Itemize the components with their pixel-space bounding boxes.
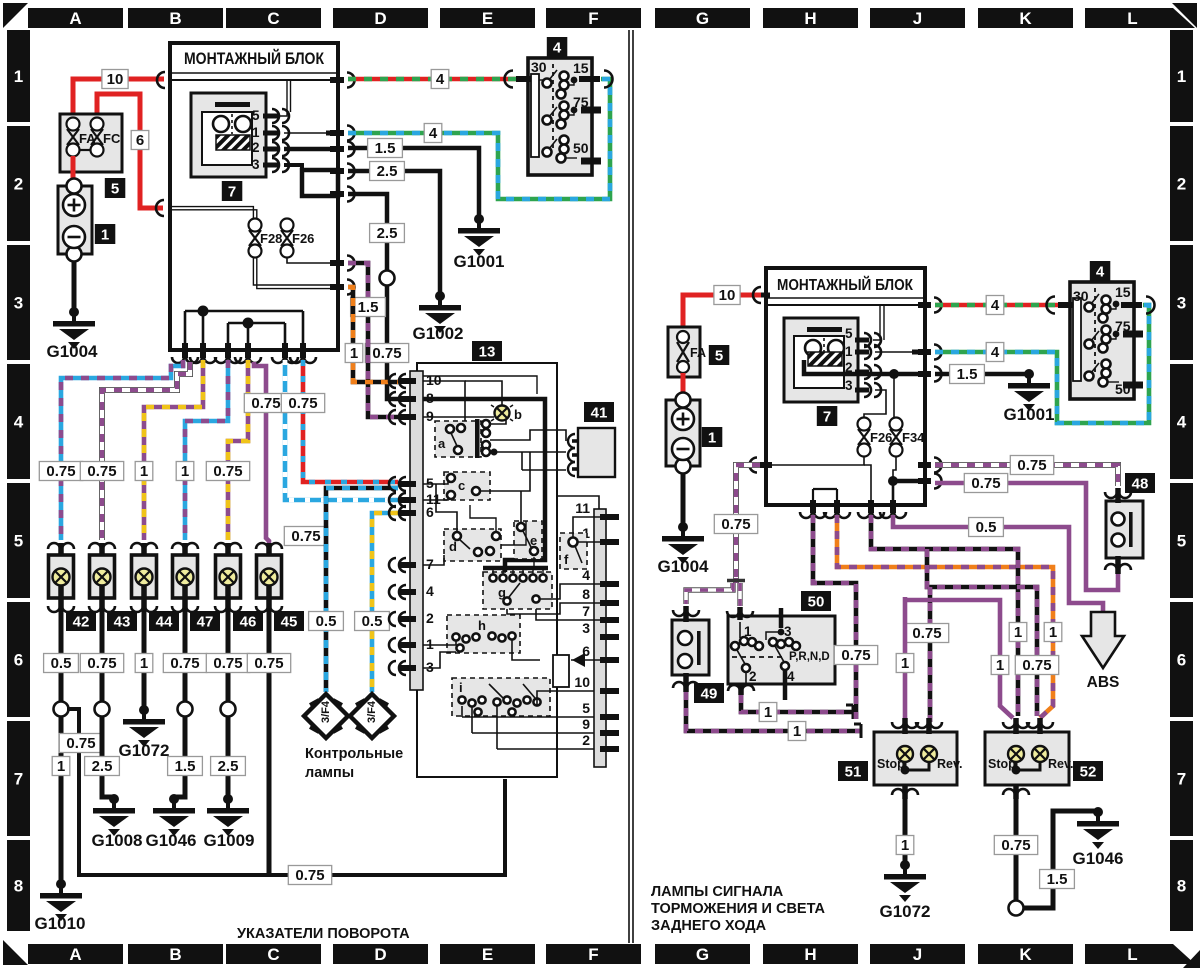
label 0.75 cyanwhite [284,527,327,546]
montage2 bus [767,304,925,306]
svg-text:0.75: 0.75 [213,655,242,672]
label 1.5 g1046 [168,757,203,776]
svg-text:4: 4 [14,413,24,432]
svg-text:0.75: 0.75 [288,395,317,412]
switch49 bottom stub [673,673,699,692]
switch 13 right pins [574,500,619,749]
svg-text:0.75: 0.75 [254,655,283,672]
svg-text:5: 5 [1177,532,1186,551]
label 4 [431,70,449,89]
lamp51 bottom wire to G1072 [892,785,918,865]
svg-text:30: 30 [531,59,547,75]
svg-text:G1008: G1008 [91,831,142,850]
svg-text:L: L [1127,9,1137,28]
svg-text:9: 9 [426,408,434,424]
svg-text:0.5: 0.5 [51,655,72,672]
svg-text:43: 43 [114,614,131,631]
fuse block 5 (FA FC) [60,114,122,172]
relay pin3 wire to link [284,165,302,170]
wire stop feed purple [905,597,1013,722]
fuse holder 5 right (FA) [668,327,706,377]
svg-text:F: F [588,945,598,964]
turn lamp 45 [256,543,282,612]
svg-text:1.5: 1.5 [1047,871,1068,888]
svg-text:7: 7 [582,603,590,619]
svg-text:2.5: 2.5 [377,163,398,180]
svg-text:D: D [374,945,386,964]
svg-text:0.75: 0.75 [170,655,199,672]
svg-text:УКАЗАТЕЛИ ПОВОРОТА: УКАЗАТЕЛИ ПОВОРОТА [237,926,410,942]
wire fuse FA to battery red [71,156,76,186]
label 1o [345,344,363,363]
svg-text:6: 6 [136,132,144,149]
svg-text:МОНТАЖНЫЙ БЛОК: МОНТАЖНЫЙ БЛОК [184,49,325,68]
label 4 switch [547,37,568,57]
label 1 g1072r [896,836,914,855]
label 4 right [986,296,1004,315]
switch pin30 stub [505,71,532,88]
wire pw to selector pin1 [737,583,742,606]
svg-text:ЗАДНЕГО ХОДА: ЗАДНЕГО ХОДА [651,918,767,934]
label 1 right [702,427,723,447]
label 4 switch right [1090,261,1111,281]
svg-text:f: f [564,552,569,567]
turn lamp 47 [172,543,198,612]
svg-text:7: 7 [228,184,236,201]
fuse F26 [281,219,315,258]
wire yellow/cyan to test lamp 2 [372,513,398,692]
rear lamp unit 52 [985,732,1073,785]
ground G1004 [46,307,98,361]
svg-text:10: 10 [574,674,590,690]
label 49 [694,683,724,703]
lamp b indicator [491,405,522,422]
label 1 bp2 [1009,623,1027,642]
svg-text:11: 11 [575,500,590,516]
svg-text:1: 1 [426,636,434,652]
lamp 43 output wire [95,610,115,797]
svg-text:1: 1 [57,758,65,775]
svg-text:E: E [482,9,493,28]
title brake lamps [651,884,826,934]
svg-text:50: 50 [573,140,589,156]
connector diamond 3/F4 right [350,694,394,738]
svg-text:4: 4 [426,583,434,599]
wire 2.5 to G1002 [348,171,440,296]
svg-text:47: 47 [197,614,214,631]
montage bottom pins [172,343,316,363]
label 50 [801,591,831,611]
wire 6 red from fuse FC [97,94,163,208]
wire purple 0.75 to 48 loop [935,483,1112,590]
label 1 op [1044,623,1062,642]
montage block (left) [170,43,338,350]
svg-text:42: 42 [73,614,90,631]
svg-text:ЛАМПЫ СИГНАЛА: ЛАМПЫ СИГНАЛА [651,884,784,900]
montage bottom bus A [185,306,303,349]
ground G1001 right [1003,369,1054,424]
svg-text:0.75: 0.75 [66,735,95,752]
module 41 connector arcs [568,434,579,476]
relay pin2 wire 1.5 exit [284,147,340,152]
svg-text:G1001: G1001 [1003,405,1054,424]
svg-text:5: 5 [582,700,590,716]
label 1 join50 [759,703,777,722]
svg-text:FC: FC [103,131,121,146]
reverse light switch 48 [1106,501,1143,558]
svg-text:7: 7 [823,409,831,426]
inline connector circle [380,271,395,286]
label 42 [66,611,96,631]
svg-text:1: 1 [845,344,853,359]
selector pin2 stub [728,684,754,695]
svg-text:2: 2 [582,732,590,748]
svg-text:0.75: 0.75 [213,463,242,480]
montage bottom bus B [228,318,285,349]
montage block internal bus [172,80,338,116]
wire F26 bottom to left exit [770,456,871,502]
wire cyan/purple to lamp 42 [61,360,183,540]
svg-text:G1072: G1072 [879,902,930,921]
switch 13 right connector strip [594,509,606,767]
svg-text:3/F4: 3/F4 [366,700,378,723]
svg-text:1: 1 [350,345,358,362]
svg-text:6: 6 [426,504,434,520]
svg-text:Контрольные: Контрольные [305,746,403,762]
lamp 45 output wire [267,610,272,875]
svg-text:2: 2 [14,175,23,194]
label 1.5b [351,298,386,317]
wire F26 to exit263 [287,258,330,263]
svg-text:48: 48 [1132,476,1149,493]
svg-text:1: 1 [140,655,148,672]
svg-text:G1046: G1046 [145,831,196,850]
wire purple/yellow to lamp 46 [228,360,248,540]
label 2.5 [370,162,405,181]
label 0.5 dia1 [309,612,344,631]
svg-text:0.75: 0.75 [1017,457,1046,474]
switch pin15 stub [579,71,613,88]
svg-text:1: 1 [1049,624,1057,641]
svg-text:0.75: 0.75 [46,463,75,480]
svg-text:2: 2 [252,140,260,155]
montage block right [766,268,925,505]
switch2 pin50 stub [1123,382,1143,389]
label 2.5 g1009 [211,757,246,776]
svg-text:1: 1 [793,723,801,740]
label 0.5 [969,518,1004,537]
wire 2.5/0.75 to pin8 [348,194,398,399]
label 2.5b [370,224,405,243]
clutch switch 49 [672,620,709,675]
svg-text:4: 4 [787,669,795,684]
svg-text:G1002: G1002 [412,324,463,343]
label 1 stop2 [991,656,1009,675]
internal link plate [302,170,338,196]
switch49 top stub [673,606,699,622]
svg-text:15: 15 [573,60,589,76]
label 0.75 rev2 [1015,656,1058,675]
svg-text:A: A [69,945,81,964]
svg-text:B: B [169,945,181,964]
text control lamps [305,746,403,781]
svg-text:b: b [514,407,522,422]
wire orange/black to pin10 [348,287,398,382]
wire 48 bottom purple [1112,574,1118,590]
svg-text:41: 41 [591,405,608,422]
svg-text:49: 49 [701,686,718,703]
svg-text:0.75: 0.75 [721,516,750,533]
svg-text:h: h [478,618,486,633]
relay2 pin5 riser [873,306,884,340]
wire cyan/purple to lamp 47 [185,360,228,540]
svg-text:G1010: G1010 [34,914,85,933]
svg-text:6: 6 [14,651,23,670]
ignition switch 4 [528,58,592,175]
label 0.75 pin8 [365,344,408,363]
svg-text:2: 2 [1177,175,1186,194]
label 10 [102,70,128,89]
svg-text:4: 4 [436,71,445,88]
svg-text:5: 5 [14,532,23,551]
turn lamp 42 [48,543,74,612]
relay2 pin3 wire [864,390,886,418]
svg-text:3: 3 [14,294,23,313]
svg-text:1.5: 1.5 [358,299,379,316]
svg-text:0.5: 0.5 [316,613,337,630]
montage2 right exit stubs [918,298,942,489]
label 0.5 dia2 [355,612,390,631]
label 44 [149,611,179,631]
wire black/cyan to test lamp 1 [326,488,398,692]
multifunction switch 13 box [417,363,557,777]
svg-text:9: 9 [582,716,590,732]
lamp 47 output wire [174,610,193,797]
svg-text:4: 4 [991,344,1000,361]
wire purple/white to selector [736,465,760,578]
label 0.75 redcyan [281,394,324,413]
wire F28 to exit287 double [253,257,330,289]
label 0.75 branch [59,734,102,753]
label 51 [838,761,868,781]
svg-text:0.75: 0.75 [372,345,401,362]
wire white/purple to lamp 43 [102,362,190,540]
svg-text:Rev.: Rev. [937,757,962,771]
label 4b right [986,343,1004,362]
svg-text:0.75: 0.75 [251,395,280,412]
svg-text:J: J [913,945,922,964]
switch2 pin30 stub [1047,297,1074,314]
svg-text:C: C [267,945,279,964]
switch48 bottom stub [1105,556,1131,574]
svg-text:FA: FA [690,346,706,360]
label 43 [107,611,137,631]
wire black/purple to pin9 [348,263,398,417]
label 1 join49 [788,722,806,741]
svg-text:L: L [1127,945,1137,964]
svg-text:G1001: G1001 [453,252,504,271]
switch48 top stub [1105,488,1131,503]
wire 50 pin2 to join [741,695,853,719]
svg-text:C: C [267,9,279,28]
wire battery negative to ground [72,261,77,312]
wire purple/white to reverse switch 48 [935,465,1118,486]
svg-text:0.75: 0.75 [87,655,116,672]
switch pin75 stub [581,107,601,114]
ground G1072 right [879,860,930,921]
label 4b [424,124,442,143]
svg-text:8: 8 [582,586,590,602]
svg-text:52: 52 [1080,764,1097,781]
svg-text:G: G [696,9,709,28]
connector diamond 3/F4 left [304,694,348,738]
svg-text:4: 4 [991,297,1000,314]
label 10 right [714,286,740,305]
svg-text:30: 30 [1073,288,1089,304]
svg-text:0.75: 0.75 [1001,837,1030,854]
svg-text:8: 8 [1177,877,1186,896]
svg-text:1: 1 [14,67,23,86]
svg-text:50: 50 [808,594,825,611]
svg-text:3: 3 [845,378,853,393]
label 0.75 p [964,474,1007,493]
svg-text:G1072: G1072 [118,741,169,760]
wire 4 red/green to ignition switch [348,77,518,82]
wire 4 green/cyan loop [348,79,610,199]
svg-text:0.75: 0.75 [912,625,941,642]
svg-text:0.75: 0.75 [295,867,324,884]
svg-text:4: 4 [1177,413,1187,432]
label 48 [1125,473,1155,493]
lamp51 top stubs [892,718,942,734]
svg-text:G1004: G1004 [657,557,709,576]
label 1 [95,224,116,244]
svg-text:G: G [696,945,709,964]
svg-text:7: 7 [426,556,434,572]
svg-text:3: 3 [784,624,792,639]
relay pin1 wire to exit [284,132,340,134]
svg-text:0.75: 0.75 [971,475,1000,492]
label 0.75 bp [834,646,877,665]
svg-text:1: 1 [708,430,716,447]
relay 7 pin stubs [263,109,289,172]
svg-text:1: 1 [252,125,260,140]
svg-text:G1046: G1046 [1072,849,1123,868]
label 0.75 rev1 [905,624,948,643]
wire 10 red right [683,295,761,330]
fuse F28 [249,219,283,258]
label 0.75 lamp52 [994,836,1037,855]
wire 1.5 to G1001 [348,148,479,219]
svg-text:5: 5 [111,181,119,198]
svg-text:1: 1 [140,463,148,480]
purple/white T split [727,578,745,583]
fuse F26 right [858,418,893,457]
ground G1008 [91,794,142,850]
montage2 bottom U link [813,489,837,502]
rear lamp unit 51 [874,732,962,785]
svg-text:H: H [804,945,816,964]
svg-text:D: D [374,9,386,28]
ground G1010 [34,879,85,933]
montage right exit stubs [330,73,355,295]
svg-text:5: 5 [715,348,723,365]
relay 7 [191,93,266,177]
relay right pin stubs [855,333,881,397]
svg-text:1: 1 [101,227,109,244]
label 7 [222,181,243,201]
wire 1.5 right to G1001 [935,372,1029,377]
svg-text:2.5: 2.5 [92,758,113,775]
svg-text:0.75: 0.75 [1022,657,1051,674]
ABS arrow [1082,612,1124,691]
montage2 bottom pins [800,500,906,518]
svg-text:3: 3 [1177,294,1186,313]
label 0.75 pw [1010,456,1053,475]
label 7 right [817,406,838,426]
wire pw to switch 49 [686,583,733,604]
label 45 [274,611,304,631]
svg-text:Rev.: Rev. [1048,757,1073,771]
label 47 [190,611,220,631]
svg-text:K: K [1019,9,1032,28]
wire purple to lamp 45 [254,362,269,543]
wire 4 green/cyan loop right [935,305,1149,423]
label 1.5 [368,139,403,158]
selector pin1 stub [727,607,753,620]
svg-text:44: 44 [156,614,173,631]
wire battery to ground right [681,473,686,527]
turn lamp 46 [215,543,241,612]
lamp 46 output wire [221,610,236,799]
label 2.5 g1008 [85,757,120,776]
svg-text:0.75: 0.75 [841,647,870,664]
svg-text:B: B [169,9,181,28]
svg-text:51: 51 [845,764,862,781]
label 0.75 bottom [288,866,331,885]
svg-text:лампы: лампы [305,765,354,781]
switch2 pin75 stub [1123,331,1143,338]
segment divider between circuits [629,30,633,943]
svg-text:3: 3 [426,659,434,675]
svg-text:2.5: 2.5 [218,758,239,775]
svg-text:6: 6 [1177,651,1186,670]
svg-text:J: J [913,9,922,28]
label 5 right [709,345,730,365]
svg-text:1: 1 [1177,67,1186,86]
label 46 [233,611,263,631]
ground G1009 [203,794,254,850]
wire montage2 pin837 orange/purple [837,515,1053,718]
wire 49 to join 1 [686,692,861,738]
label 1.5 right [950,365,985,384]
svg-text:1: 1 [901,655,909,672]
battery 1 [58,179,92,262]
wire red/cyan to pin5 [303,360,398,482]
switch 13 left connector strip [410,371,423,690]
selector switch 50 [728,608,835,700]
wire 0.5 purple to ABS [893,515,1103,612]
svg-text:0.75: 0.75 [87,463,116,480]
svg-text:F26: F26 [292,231,314,246]
svg-text:1.5: 1.5 [375,140,396,157]
labels lamp wires [39,462,82,481]
branch 0.75 wire to switch bottom [67,709,505,875]
ground G1046 [145,794,196,850]
label 52 [1073,761,1103,781]
ground G1004 right [657,522,709,576]
svg-text:7: 7 [14,770,23,789]
